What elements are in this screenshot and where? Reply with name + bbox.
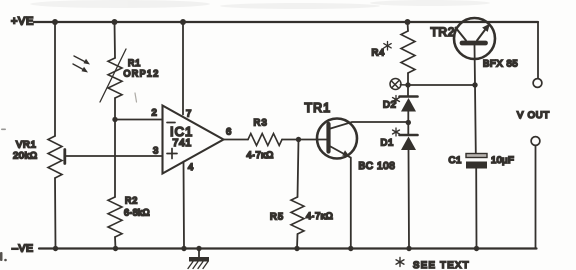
svg-text:4: 4 (188, 162, 193, 173)
node X junction (405, 82, 410, 87)
asterisk for SEE TEXT note (396, 258, 404, 267)
svg-text:R5: R5 (270, 212, 284, 223)
wire: TR2 base down to node X line (474, 46, 477, 86)
node: bottom rail junction R5 (294, 246, 299, 251)
svg-text:2: 2 (152, 108, 157, 119)
TR1 collector line (331, 122, 410, 129)
transistor TR1 circle (317, 119, 357, 159)
TR2 emitter line with arrow (477, 29, 486, 41)
svg-text:20kΩ: 20kΩ (13, 151, 37, 162)
node: bottom rail junction ground (196, 246, 201, 251)
node: top rail junction at VR1 (52, 19, 58, 25)
node A junction (R1/R2/pin2) (112, 117, 117, 122)
wire: top rail down to VR1 (54, 22, 56, 136)
terminal: V OUT - (open circle) (531, 137, 540, 146)
asterisk for D2 (393, 96, 400, 104)
wire: IC1 pin 4 to -VE rail (183, 162, 186, 249)
svg-text:BC 108: BC 108 (359, 161, 396, 172)
wire: C1 bottom to -VE rail (475, 169, 477, 249)
svg-text:741: 741 (173, 137, 192, 149)
wire: R4 bottom to node X (407, 73, 409, 96)
node: TR2 base / C1 junction (472, 82, 477, 87)
resistor R1 (ORP12 LDR) (108, 58, 122, 98)
wire: junction to TR1 base (299, 139, 327, 141)
svg-text:3: 3 (153, 146, 158, 157)
svg-text:6: 6 (226, 127, 231, 138)
node: bottom rail junction IC1 pin 4 (181, 246, 186, 251)
node: top rail junction at R1 (112, 19, 118, 25)
TR2 collector line (456, 28, 467, 41)
wire: V OUT - terminal down to -VE rail (535, 145, 537, 248)
svg-text:6·8kΩ: 6·8kΩ (124, 208, 150, 218)
node: top rail junction at R4 (405, 19, 411, 25)
capacitor C1 top plate (466, 154, 487, 158)
TR1 emitter line with arrow (331, 147, 351, 158)
TR2 base bar (462, 41, 486, 46)
svg-text:VR1: VR1 (16, 140, 37, 151)
scan speck left edge (0, 129, 7, 262)
resistor R4 (401, 31, 415, 73)
wire: IC1 pin 7 to top rail (182, 22, 184, 115)
svg-text:R4: R4 (372, 48, 385, 59)
lamp/point X symbol (390, 79, 408, 90)
node: bottom rail junction VR1 (53, 246, 58, 251)
R1 light arrow 2 (73, 64, 88, 73)
wire: IC1 output pin 6 to R3 (224, 139, 249, 141)
svg-text:4·7κΩ: 4·7κΩ (247, 150, 274, 161)
svg-text:BFX 85: BFX 85 (483, 59, 518, 70)
IC1 inverting input minus sign (167, 122, 175, 124)
node: bottom rail junction TR1 emitter (348, 246, 353, 251)
wire: VR1 bottom to -VE rail (54, 178, 57, 249)
node: top rail junction at IC1 pin 7 (180, 19, 186, 25)
node: bottom rail junction R2 (113, 246, 118, 251)
svg-text:C1: C1 (449, 155, 462, 166)
wire: -VE bottom rail (39, 247, 537, 249)
svg-text:7: 7 (186, 109, 191, 120)
TR2 emitter arrowhead (482, 24, 490, 32)
capacitor C1 bottom plate (466, 162, 487, 169)
wire: junction down to C1 (474, 85, 477, 154)
svg-text:+VE: +VE (11, 16, 34, 28)
wire: node A to IC1 pin 2 (115, 119, 163, 121)
svg-text:–VE: –VE (12, 243, 34, 255)
svg-text:TR2: TR2 (431, 25, 455, 39)
node: bottom rail junction C1 (474, 246, 479, 251)
VR1 wiper bar (63, 150, 66, 164)
wire: top rail down to R1 (114, 22, 117, 58)
R1 light arrow 1 (74, 56, 90, 65)
resistor R5 (291, 197, 304, 234)
node: bottom rail junction D1 (406, 246, 411, 251)
transistor TR2 circle (454, 18, 495, 59)
svg-text:V OUT: V OUT (517, 110, 550, 121)
scan smudge top edge (30, 0, 490, 9)
svg-text:R2: R2 (125, 196, 138, 206)
op-amp IC1 741 triangle (163, 106, 224, 174)
svg-text:ORP12: ORP12 (124, 69, 160, 79)
resistor R3 (248, 134, 282, 146)
svg-text:SEE TEXT: SEE TEXT (413, 260, 470, 270)
wire: top rail down to R4 (407, 22, 410, 31)
node: D2/D1/TR1 collector junction (406, 120, 411, 125)
wire: R3 to TR1 base node (282, 139, 299, 141)
wire: node A down to R2 (crosses pin3 wire, no joint) (114, 120, 116, 198)
wire: R2 bottom to -VE rail (114, 237, 117, 249)
svg-text:R1: R1 (128, 58, 141, 68)
ground symbol (188, 249, 209, 269)
IC1 non-inverting plus sign (167, 149, 177, 159)
svg-text:D1: D1 (381, 138, 394, 149)
resistor R2 (108, 197, 122, 237)
diode D1 (400, 135, 418, 249)
wire: R5 bottom to -VE rail (296, 234, 299, 249)
asterisk for D1 (393, 128, 400, 136)
TR1 emitter arrowhead (342, 150, 349, 156)
wire: +VE top rail (34, 21, 538, 23)
scan speck near R1 (135, 93, 137, 102)
node: R3/R5/TR1 base junction (296, 137, 301, 142)
wire: VR1 wiper to IC1 pin 3 (65, 155, 163, 157)
wire: R1 bottom to node A (114, 98, 116, 120)
asterisk for R4 (384, 42, 391, 51)
diode D2 (400, 97, 418, 136)
wire: TR1 emitter to -VE rail (350, 158, 352, 249)
TR1 base bar (326, 124, 330, 152)
potentiometer VR1 (48, 136, 62, 178)
svg-text:TR1: TR1 (305, 101, 332, 115)
terminal: V OUT + (open circle) (533, 79, 542, 88)
svg-text:4·7κΩ: 4·7κΩ (306, 211, 333, 222)
wire: junction down to R5 (298, 140, 299, 198)
wire: rail corner down to V OUT + terminal (537, 22, 539, 78)
svg-text:R3: R3 (254, 118, 269, 129)
svg-text:10μF: 10μF (491, 155, 514, 166)
wire: node X to TR2 base column (408, 84, 475, 86)
R1 LDR diagonal stroke (100, 49, 126, 102)
